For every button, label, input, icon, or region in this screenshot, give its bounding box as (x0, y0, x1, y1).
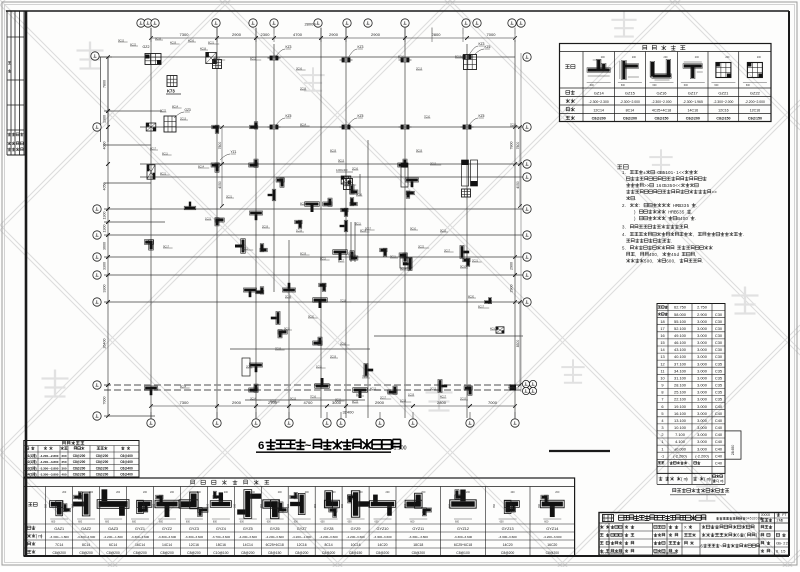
svg-text:200: 200 (251, 491, 256, 494)
svg-text:34.100: 34.100 (674, 368, 687, 373)
svg-text:3.000: 3.000 (697, 411, 708, 416)
svg-text:.: . (778, 549, 779, 554)
svg-text:): ) (722, 479, 723, 483)
svg-text:>: > (647, 183, 650, 188)
svg-text:12C16: 12C16 (189, 543, 199, 547)
svg-text:350: 350 (368, 503, 371, 508)
svg-text:12C16: 12C16 (750, 108, 761, 112)
svg-text:,: , (657, 252, 658, 257)
svg-text:1C22: 1C22 (160, 109, 167, 112)
svg-text:8C14: 8C14 (172, 105, 179, 108)
svg-text:C8@200: C8@200 (376, 551, 390, 555)
svg-text:GZ17: GZ17 (688, 91, 699, 96)
svg-text:GAZ3: GAZ3 (108, 527, 118, 531)
svg-text:C8@200: C8@200 (106, 551, 120, 555)
svg-text:9C16: 9C16 (356, 193, 363, 196)
svg-text:C8@200: C8@200 (96, 460, 109, 464)
svg-text:.: . (743, 232, 744, 237)
svg-text:200: 200 (61, 454, 66, 458)
svg-text:9C19: 9C19 (416, 149, 423, 152)
svg-text:14C20: 14C20 (503, 543, 513, 547)
svg-text:C35: C35 (715, 397, 722, 402)
svg-text:-3.300~3.600: -3.300~3.600 (454, 535, 473, 539)
svg-text:13.100: 13.100 (674, 418, 687, 423)
svg-text:8C11: 8C11 (320, 257, 326, 260)
svg-text:14C14: 14C14 (243, 543, 253, 547)
svg-text:-1: -1 (661, 453, 664, 458)
svg-text:C8@150: C8@150 (716, 117, 730, 121)
svg-text:7800: 7800 (218, 142, 222, 150)
svg-text:3.000: 3.000 (697, 432, 708, 437)
svg-text:-3.300~-3.800: -3.300~-3.800 (40, 473, 59, 477)
svg-text:C8@200: C8@200 (133, 551, 147, 555)
svg-text:25.100: 25.100 (674, 390, 687, 395)
svg-text:C8@200: C8@200 (96, 454, 109, 458)
svg-text:6C21: 6C21 (300, 202, 307, 205)
svg-text:600: 600 (410, 521, 415, 524)
svg-text:C8@200: C8@200 (73, 454, 86, 458)
svg-text:C40: C40 (715, 460, 723, 465)
svg-text:9C13: 9C13 (338, 159, 345, 162)
svg-text:-4.200~-1.800: -4.200~-1.800 (292, 535, 312, 539)
svg-text:16C14: 16C14 (135, 543, 145, 547)
svg-text:2900: 2900 (232, 32, 242, 37)
svg-text:350: 350 (152, 503, 155, 508)
svg-text:C35: C35 (715, 376, 722, 381)
svg-text:28.650: 28.650 (731, 445, 735, 455)
svg-text:58.000: 58.000 (674, 312, 687, 317)
svg-text:GYZ12: GYZ12 (457, 527, 469, 531)
svg-text:350: 350 (233, 503, 236, 508)
svg-text:6C21: 6C21 (208, 41, 215, 44)
svg-text:18C16: 18C16 (216, 543, 226, 547)
svg-text:9C17: 9C17 (163, 245, 170, 248)
svg-text:3.000: 3.000 (697, 383, 708, 388)
svg-text:7800: 7800 (510, 142, 514, 150)
svg-text:C30: C30 (715, 326, 723, 331)
svg-text:4050: 4050 (103, 142, 107, 150)
svg-text:4.100: 4.100 (675, 439, 686, 444)
svg-text:2C18: 2C18 (300, 87, 307, 90)
svg-text:C8@200: C8@200 (73, 473, 86, 477)
svg-text:C8@200: C8@200 (73, 460, 86, 464)
svg-text:9C15: 9C15 (290, 397, 297, 400)
svg-text:8C21: 8C21 (160, 172, 167, 175)
svg-text:7C14: 7C14 (55, 543, 63, 547)
svg-text:KZ6: KZ6 (485, 45, 491, 49)
svg-text:14C14: 14C14 (162, 543, 172, 547)
svg-text:3.000: 3.000 (697, 439, 708, 444)
svg-text:3.000: 3.000 (697, 368, 708, 373)
svg-text:3.000: 3.000 (697, 333, 708, 338)
svg-text:3C16: 3C16 (296, 67, 303, 70)
svg-text:C30: C30 (715, 354, 723, 359)
svg-text:3C17: 3C17 (444, 249, 451, 252)
svg-text:28.100: 28.100 (674, 383, 687, 388)
svg-text:6C19: 6C19 (300, 252, 307, 255)
svg-text:4050: 4050 (218, 181, 222, 189)
svg-text:3: 3 (661, 425, 663, 430)
svg-text:.: . (635, 196, 636, 201)
svg-text:4700: 4700 (293, 32, 303, 37)
svg-text:(-2.200): (-2.200) (695, 453, 709, 458)
svg-text:4C19: 4C19 (170, 41, 177, 44)
svg-text:8C17: 8C17 (338, 259, 345, 262)
svg-text:350: 350 (314, 503, 317, 508)
svg-text:2C21: 2C21 (472, 259, 479, 262)
svg-text:5: 5 (661, 411, 663, 416)
svg-text:600: 600 (653, 84, 658, 87)
svg-text:-2.200~2.000: -2.200~2.000 (745, 100, 765, 104)
svg-text:GYZ5: GYZ5 (243, 527, 253, 531)
svg-text:-3.300~3.600: -3.300~3.600 (498, 535, 517, 539)
svg-text:6C12: 6C12 (250, 57, 257, 60)
svg-text:GZ3: GZ3 (185, 108, 191, 112)
svg-text:4C18: 4C18 (200, 47, 207, 50)
svg-text:C35: C35 (715, 361, 722, 366)
svg-text:C6@400: C6@400 (120, 466, 133, 470)
svg-text:3.000: 3.000 (697, 418, 708, 423)
svg-text:18: 18 (660, 319, 664, 324)
svg-text:600: 600 (51, 521, 56, 524)
svg-text:3.000: 3.000 (697, 397, 708, 402)
svg-text:2800: 2800 (432, 32, 442, 37)
svg-text:6C14: 6C14 (198, 165, 205, 168)
svg-text:600: 600 (267, 521, 272, 524)
svg-text:C8@200: C8@200 (501, 551, 515, 555)
svg-text:350: 350 (448, 503, 451, 508)
svg-text:C6@400: C6@400 (120, 460, 133, 464)
svg-text:C8@200: C8@200 (295, 551, 309, 555)
svg-text:GYZ10: GYZ10 (376, 527, 388, 531)
svg-text:C40: C40 (715, 418, 723, 423)
svg-text:2C12: 2C12 (430, 162, 437, 165)
svg-text:200: 200 (197, 491, 202, 494)
svg-text:9C20: 9C20 (308, 315, 315, 318)
svg-text:17: 17 (660, 326, 664, 331)
svg-text:7000: 7000 (487, 32, 497, 37)
svg-text:11: 11 (660, 368, 664, 373)
svg-text:8C14: 8C14 (82, 543, 90, 547)
svg-text:350: 350 (260, 503, 263, 508)
svg-text:-3.300~3.600: -3.300~3.600 (77, 535, 96, 539)
svg-text:4C25+4C18: 4C25+4C18 (652, 108, 671, 112)
svg-text:C8@200: C8@200 (592, 117, 606, 121)
svg-text:6: 6 (661, 404, 663, 409)
svg-text:C8@100: C8@100 (456, 551, 470, 555)
svg-text:2C11: 2C11 (242, 247, 248, 250)
svg-text:GAZ2: GAZ2 (81, 527, 91, 531)
svg-text:ICC-CAD4060BA: ICC-CAD4060BA (654, 551, 677, 555)
svg-text:C30: C30 (715, 333, 723, 338)
svg-text:8: 8 (661, 390, 663, 395)
svg-text:3300: 3300 (103, 262, 107, 270)
svg-text:.: . (625, 203, 626, 208)
svg-text:7300: 7300 (180, 32, 190, 37)
svg-text:2.900: 2.900 (697, 312, 708, 317)
svg-text:C30: C30 (715, 319, 723, 324)
svg-text:350: 350 (126, 503, 129, 508)
svg-text:200: 200 (511, 491, 516, 494)
svg-text:32400: 32400 (342, 410, 354, 415)
svg-text:200: 200 (555, 491, 560, 494)
svg-text:-3.300~3.600: -3.300~3.600 (373, 535, 392, 539)
svg-text:1C21: 1C21 (205, 217, 212, 220)
svg-text:600: 600 (132, 521, 137, 524)
svg-text:C40: C40 (715, 411, 723, 416)
svg-text:600: 600 (500, 521, 505, 524)
svg-text:-3.300~3.600: -3.300~3.600 (185, 535, 204, 539)
svg-text:GYZ7: GYZ7 (297, 527, 307, 531)
svg-text:350: 350 (99, 503, 102, 508)
svg-text:7C12: 7C12 (362, 375, 369, 378)
svg-text:3.000: 3.000 (697, 425, 708, 430)
svg-text:GYZ9: GYZ9 (351, 527, 361, 531)
svg-text:1C11: 1C11 (316, 365, 322, 368)
svg-text:4050: 4050 (516, 181, 520, 189)
svg-text:16C20: 16C20 (547, 543, 557, 547)
svg-text:8C14: 8C14 (300, 123, 307, 126)
svg-text:GYZ11: GYZ11 (412, 527, 424, 531)
svg-text:C30: C30 (715, 340, 723, 345)
svg-text:GYZ3: GYZ3 (189, 527, 199, 531)
svg-text:2: 2 (786, 541, 788, 546)
svg-text:2C19: 2C19 (330, 355, 337, 358)
svg-text:2900: 2900 (371, 32, 381, 37)
svg-text:4C16: 4C16 (188, 39, 195, 42)
svg-text:1300: 1300 (103, 212, 107, 220)
svg-text:4C17: 4C17 (440, 395, 447, 398)
svg-text:6C25+6C18: 6C25+6C18 (454, 543, 472, 547)
svg-text:-4.200~3.600: -4.200~3.600 (239, 535, 258, 539)
svg-text:1200x400: 1200x400 (336, 168, 348, 172)
svg-text:10.100: 10.100 (674, 425, 687, 430)
svg-text:600: 600 (213, 521, 218, 524)
svg-text:7800: 7800 (103, 80, 107, 88)
svg-text:19.100: 19.100 (674, 404, 687, 409)
svg-text:600: 600 (105, 521, 110, 524)
svg-text:7800: 7800 (516, 142, 520, 150)
svg-text:C40: C40 (715, 439, 723, 444)
svg-text:15: 15 (660, 340, 664, 345)
svg-text:350: 350 (341, 503, 344, 508)
svg-text:8C22: 8C22 (352, 400, 359, 403)
svg-text:6C11: 6C11 (356, 393, 362, 396)
svg-text:2C13: 2C13 (180, 117, 187, 120)
svg-text:200: 200 (62, 491, 67, 494)
svg-text:7300: 7300 (180, 400, 190, 405)
svg-text:C8@200: C8@200 (686, 117, 700, 121)
svg-text:,: , (652, 258, 653, 263)
svg-text:±0.000: ±0.000 (674, 446, 687, 451)
svg-text:GYZ6: GYZ6 (270, 527, 280, 531)
svg-text:200: 200 (89, 491, 94, 494)
svg-text:2900: 2900 (510, 285, 514, 293)
svg-text:.: . (671, 238, 672, 243)
svg-text:Q2(1排): Q2(1排) (25, 459, 36, 464)
svg-text:C8@200: C8@200 (412, 551, 426, 555)
svg-text:200: 200 (632, 56, 637, 59)
svg-text:350: 350 (493, 503, 496, 508)
svg-text:200: 200 (359, 491, 364, 494)
svg-text:3.000: 3.000 (697, 340, 708, 345)
svg-text:3.000: 3.000 (697, 376, 708, 381)
svg-text:1300: 1300 (103, 115, 107, 123)
svg-text:2900: 2900 (329, 32, 339, 37)
svg-text:-4.200~-1.800: -4.200~-1.800 (103, 535, 123, 539)
svg-text:200: 200 (332, 491, 337, 494)
svg-text:3.000: 3.000 (697, 347, 708, 352)
svg-text:600: 600 (321, 521, 326, 524)
svg-text:C40: C40 (715, 453, 723, 458)
svg-text:200: 200 (725, 56, 730, 59)
svg-text:200: 200 (757, 56, 762, 59)
svg-text:C8@200: C8@200 (546, 551, 560, 555)
svg-text:7C18: 7C18 (340, 299, 347, 302)
svg-text:JC3: JC3 (342, 175, 350, 180)
svg-text:KZ3: KZ3 (358, 45, 364, 49)
svg-text:C8@200: C8@200 (52, 551, 66, 555)
svg-text:6C17: 6C17 (150, 147, 157, 150)
svg-text:600: 600 (186, 521, 191, 524)
svg-text:3600: 3600 (103, 242, 107, 250)
svg-text:Q1(1排): Q1(1排) (25, 453, 36, 458)
svg-text:-4.200~3.600: -4.200~3.600 (266, 535, 285, 539)
svg-text:9C11: 9C11 (390, 255, 396, 258)
svg-text:,: , (693, 232, 694, 237)
svg-text:600: 600 (590, 84, 595, 87)
svg-text:C8@200: C8@200 (241, 551, 255, 555)
svg-text:46.100: 46.100 (674, 340, 687, 345)
svg-text:200: 200 (386, 491, 391, 494)
svg-text:C40: C40 (715, 404, 723, 409)
svg-text:-4.200~-2.800: -4.200~-2.800 (40, 454, 59, 458)
svg-text:C8@200: C8@200 (96, 466, 109, 470)
svg-text:3C21: 3C21 (335, 398, 342, 401)
svg-text:14C16: 14C16 (688, 108, 699, 112)
svg-text:GZ14: GZ14 (594, 91, 605, 96)
svg-text:<: < (678, 183, 681, 188)
svg-text:1C18: 1C18 (296, 229, 303, 232)
svg-text:1C12: 1C12 (270, 399, 277, 402)
svg-text:2C13: 2C13 (345, 182, 352, 185)
svg-text:200: 200 (305, 491, 310, 494)
svg-text:GYZ2: GYZ2 (162, 527, 172, 531)
svg-text:3C16: 3C16 (340, 342, 347, 345)
svg-text:6C19: 6C19 (330, 149, 337, 152)
svg-text:C40: C40 (715, 425, 723, 430)
svg-text:2C13: 2C13 (416, 67, 423, 70)
svg-text:3.000: 3.000 (697, 326, 708, 331)
svg-text:5C17: 5C17 (365, 227, 372, 230)
svg-text:-4.200~-3.800: -4.200~-3.800 (40, 460, 59, 464)
svg-text:600: 600 (684, 84, 689, 87)
svg-text:7.100: 7.100 (675, 432, 686, 437)
svg-text:1C13: 1C13 (400, 399, 407, 402)
svg-text:8C14: 8C14 (400, 267, 407, 270)
svg-text:3.000: 3.000 (697, 404, 708, 409)
svg-text:.: . (625, 245, 626, 250)
svg-text:GYZ1: GYZ1 (135, 527, 145, 531)
svg-text:13: 13 (660, 354, 664, 359)
svg-text:7: 7 (661, 397, 663, 402)
svg-text:6C10: 6C10 (214, 57, 221, 60)
svg-text:6C25+6C18: 6C25+6C18 (266, 543, 284, 547)
svg-text:200: 200 (224, 491, 229, 494)
svg-text:,: , (695, 252, 696, 257)
svg-text:KZ5: KZ5 (479, 114, 485, 118)
svg-text:49.100: 49.100 (674, 333, 687, 338)
svg-text:9C15: 9C15 (440, 229, 447, 232)
svg-text:1:100: 1:100 (394, 446, 407, 452)
svg-text:2900: 2900 (232, 400, 242, 405)
svg-text:.: . (625, 232, 626, 237)
svg-text:-2.300~2.000: -2.300~2.000 (651, 100, 671, 104)
svg-text:C8@200: C8@200 (160, 551, 174, 555)
svg-text:C40: C40 (715, 432, 723, 437)
svg-text:7C15: 7C15 (275, 347, 282, 350)
svg-text:8C14: 8C14 (180, 385, 187, 388)
svg-text:7000: 7000 (488, 400, 498, 405)
svg-text:2900: 2900 (375, 400, 385, 405)
svg-text:.: . (691, 209, 692, 214)
svg-text:40.100: 40.100 (674, 354, 687, 359)
svg-text:GYZ14: GYZ14 (546, 527, 558, 531)
svg-text:>: > (714, 189, 717, 194)
svg-text:-3.300~3.600: -3.300~3.600 (158, 535, 177, 539)
svg-text:600: 600 (348, 521, 353, 524)
svg-text:C6@400: C6@400 (120, 473, 133, 477)
svg-text:31.100: 31.100 (674, 376, 687, 381)
svg-text:<: < (682, 170, 685, 175)
svg-text:1: 1 (661, 446, 663, 451)
svg-text:3C21: 3C21 (226, 195, 233, 198)
svg-text:3C22: 3C22 (418, 245, 425, 248)
svg-text:9: 9 (661, 383, 663, 388)
svg-text:,: , (635, 252, 636, 257)
svg-text:200: 200 (695, 56, 700, 59)
svg-text:.: . (625, 224, 626, 229)
svg-text:-2.300~2.000: -2.300~2.000 (620, 100, 640, 104)
svg-text:200: 200 (143, 491, 148, 494)
svg-text:6C17: 6C17 (478, 305, 485, 308)
svg-text:4700: 4700 (304, 400, 314, 405)
svg-text:2C16: 2C16 (352, 167, 359, 170)
svg-text:350: 350 (206, 503, 209, 508)
svg-text:2C18: 2C18 (285, 295, 292, 298)
svg-text:3.000: 3.000 (697, 319, 708, 324)
svg-text:-2.300~2.000: -2.300~2.000 (713, 100, 733, 104)
svg-text:600: 600 (621, 84, 626, 87)
svg-text:6C14: 6C14 (109, 543, 117, 547)
svg-text:-3.300~-2.800: -3.300~-2.800 (40, 466, 59, 470)
svg-text:.: . (702, 258, 703, 263)
svg-text:C30: C30 (715, 347, 723, 352)
svg-text:C8@150: C8@150 (349, 551, 363, 555)
svg-text:4050: 4050 (103, 183, 107, 191)
svg-text:-3.300~-1.800: -3.300~-1.800 (50, 535, 70, 539)
svg-text:4C10: 4C10 (490, 327, 497, 330)
svg-text:2900: 2900 (510, 262, 514, 270)
svg-text:200: 200 (116, 491, 121, 494)
svg-text:(-2.200): (-2.200) (673, 453, 687, 458)
svg-text:.: . (695, 216, 696, 221)
svg-text:200: 200 (664, 56, 669, 59)
svg-text:350: 350 (287, 503, 290, 508)
svg-text:9C18: 9C18 (155, 37, 162, 40)
svg-text:300: 300 (61, 466, 66, 470)
svg-text:KZ3: KZ3 (286, 45, 292, 49)
